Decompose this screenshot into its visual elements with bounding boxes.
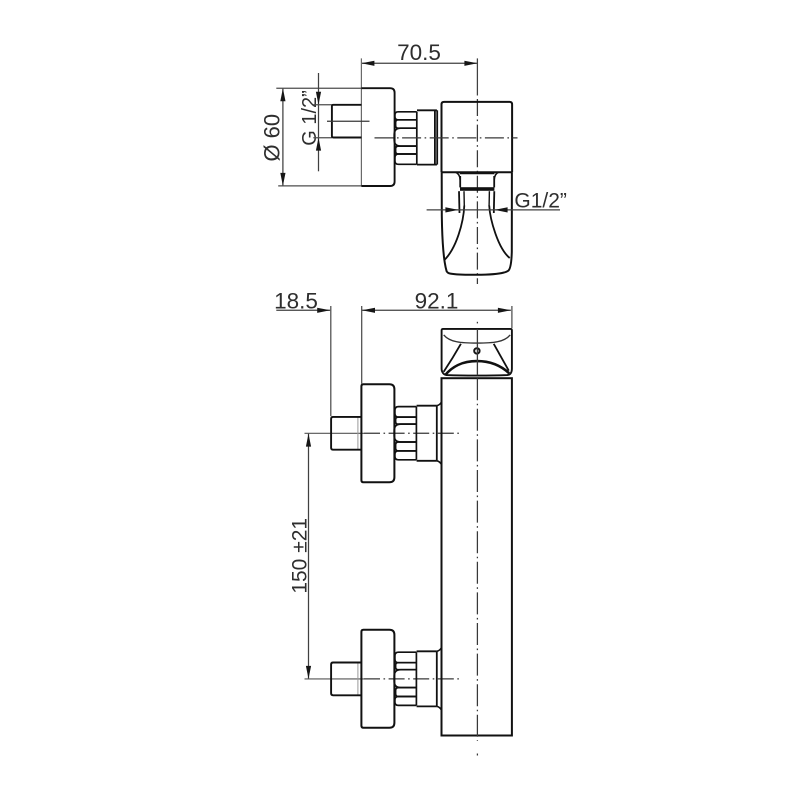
handle skirt inner curve left bbox=[444, 206, 464, 261]
knob inner top curve bbox=[444, 335, 511, 343]
knob dome arc bbox=[445, 361, 509, 375]
dimension 92.1 line bbox=[362, 309, 511, 311]
knob left diagonal bbox=[444, 344, 461, 372]
dimension G 1/2 arrowheads bbox=[316, 92, 321, 151]
handle skirt (side view) outline bbox=[442, 172, 512, 275]
dimension 150 +-21 arrowheads bbox=[306, 434, 311, 679]
pipe top connection bbox=[331, 417, 361, 450]
svg-text:G1/2”: G1/2” bbox=[514, 190, 567, 213]
dimension D60 line bbox=[282, 88, 284, 186]
outlet collar band (dark) bbox=[460, 187, 494, 191]
outlet neck sides bbox=[459, 176, 461, 187]
axis extension line top connection bbox=[305, 432, 365, 434]
dimension G 1/2 line bbox=[318, 73, 320, 171]
svg-text:Ø 60: Ø 60 bbox=[260, 114, 285, 162]
dimension 150 +-21 line bbox=[308, 433, 310, 679]
extension lines G 1/2 bbox=[313, 105, 332, 138]
body (front view) bbox=[442, 378, 512, 735]
body bottom edge (side view) bbox=[442, 171, 513, 173]
G1/2 outlet leader arrowheads bbox=[445, 207, 507, 212]
dimension 18.5 text bbox=[274, 289, 318, 314]
handle skirt inner curve right bbox=[489, 206, 510, 259]
handle knob (front view) outline bbox=[442, 329, 512, 376]
outlet neck top line bbox=[460, 173, 495, 175]
dimension 92.1 arrowheads bbox=[362, 308, 511, 313]
dimension G 1/2 (pipe) text bbox=[299, 90, 321, 146]
dimension 18.5 arrowhead bbox=[317, 308, 330, 313]
body (side view) bbox=[442, 102, 513, 172]
wall pipe centerline bbox=[327, 120, 370, 122]
dimension D60 text bbox=[260, 114, 285, 162]
dimension 18.5 line bbox=[276, 309, 330, 311]
axis centerline (side view) bbox=[375, 137, 518, 139]
svg-text:70.5: 70.5 bbox=[397, 40, 441, 65]
wall pipe (side view) bbox=[332, 105, 362, 138]
extension lines (18.5 / 92.1) bbox=[331, 306, 512, 416]
nut top connection (pill bands) bbox=[394, 407, 416, 460]
shank top connection bbox=[417, 406, 437, 461]
axis extension line bottom connection bbox=[305, 678, 365, 680]
dimension D60 arrowheads bbox=[280, 88, 285, 186]
extension line right (70.5) / body centerline solid part bbox=[476, 58, 478, 95]
dimension 70.5 line bbox=[361, 62, 477, 64]
knob right diagonal bbox=[494, 344, 509, 371]
dimension 70.5 arrowheads bbox=[361, 61, 477, 66]
G1/2 outlet label leader line bbox=[427, 209, 560, 211]
extension line left (70.5) / flange wall edge bbox=[360, 58, 362, 186]
dimension 92.1 text bbox=[415, 289, 459, 314]
knob centerline segment bbox=[476, 329, 478, 375]
dimension 70.5 text bbox=[397, 40, 441, 65]
extension lines D60 bbox=[276, 88, 361, 186]
shank cylinder (side view) bbox=[417, 110, 437, 164]
vertical centerline through side body (dash-dot) bbox=[476, 99, 478, 284]
wall flange (side view) bbox=[361, 88, 394, 186]
outlet thread crest lines bbox=[458, 191, 461, 213]
outlet neck fillets bbox=[456, 172, 461, 180]
knob screw hole circle bbox=[474, 348, 479, 353]
escutcheon top bbox=[361, 384, 394, 482]
axis centerline bottom connection bbox=[364, 678, 459, 680]
body vertical centerline (front view) bbox=[476, 378, 478, 741]
outlet thread root lines bbox=[463, 191, 465, 206]
dimension 150 +-21 text bbox=[289, 518, 312, 594]
axis centerline top connection bbox=[364, 432, 459, 434]
escutcheon rear faint line bbox=[357, 417, 359, 450]
shank flare arcs top connection bbox=[437, 402, 442, 406]
G1/2 outlet label text bbox=[514, 190, 567, 213]
centerline dot above knob bbox=[476, 322, 478, 324]
hex nut (side view) bbox=[394, 112, 417, 165]
